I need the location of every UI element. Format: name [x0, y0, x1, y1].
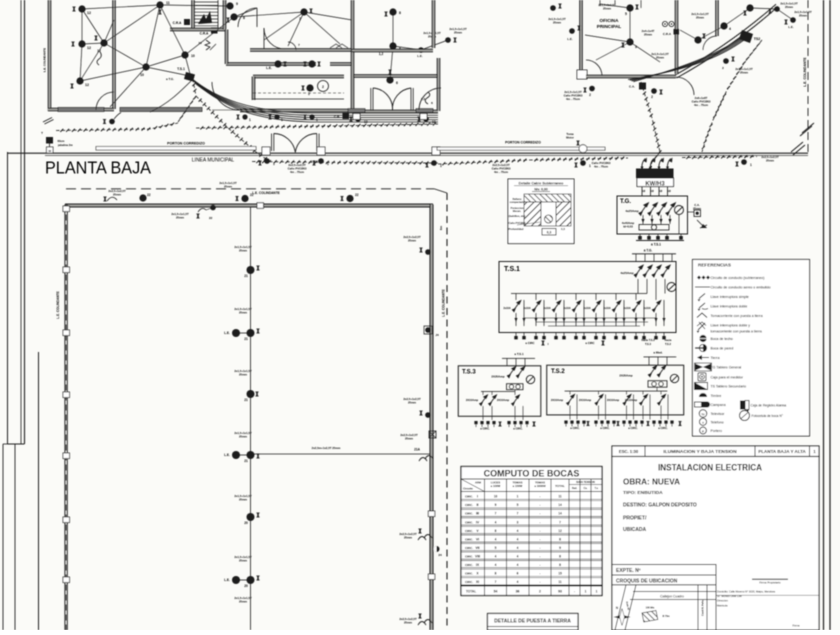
bundle drop arrows left — [150, 79, 193, 112]
right wall tomacorriente arcs mid — [418, 537, 426, 541]
svg-text:7: 7 — [495, 512, 497, 516]
svg-text:T.S.1: T.S.1 — [177, 67, 185, 71]
TS2 branch breakers — [569, 391, 571, 394]
svg-text:2X10Amp: 2X10Amp — [625, 398, 638, 402]
svg-text:7: 7 — [495, 580, 497, 584]
svg-text:20: 20 — [244, 521, 248, 525]
frame lower vertical — [14, 444, 16, 630]
svg-text:25mm: 25mm — [404, 620, 413, 624]
svg-text:CIRC.: CIRC. — [465, 537, 473, 541]
svg-text:25mm: 25mm — [656, 55, 665, 59]
svg-text:a T.G.: a T.G. — [166, 77, 174, 81]
svg-text:CIRC.: CIRC. — [465, 580, 473, 584]
svg-text:4: 4 — [729, 27, 731, 31]
TS1 main breakers — [634, 265, 643, 277]
svg-text:25mm: 25mm — [239, 558, 248, 562]
svg-text:compactado: compactado — [510, 201, 525, 204]
office dots — [626, 4, 633, 11]
svg-text:14: 14 — [558, 503, 562, 507]
svg-text:2X20Amp: 2X20Amp — [491, 375, 504, 379]
TS1 collector lines — [524, 317, 656, 319]
svg-text:4m→75cm: 4m→75cm — [566, 97, 581, 101]
T.S.3 box — [458, 366, 541, 417]
svg-text:PLANTA BAJA Y ALTA: PLANTA BAJA Y ALTA — [758, 449, 806, 454]
svg-text:1,2: 1,2 — [379, 52, 384, 56]
svg-text:2: 2 — [308, 92, 310, 96]
svg-text:Circuito de conducto (subterra: Circuito de conducto (subterraneo) — [711, 276, 765, 280]
gate receptacles — [264, 158, 270, 164]
svg-text:Rad.: Rad. — [572, 487, 578, 490]
svg-text:C.A.: C.A. — [629, 85, 635, 89]
svg-text:Ø 75m: Ø 75m — [662, 615, 669, 618]
legend sym caja registro alarma — [740, 401, 745, 410]
svg-text:Matricula: Matricula — [717, 603, 728, 607]
TS3 bus — [481, 391, 515, 393]
street receptacle x744 — [741, 159, 747, 165]
svg-text:Mecan.: Mecan. — [513, 210, 522, 213]
svg-text:KW/H3: KW/H3 — [645, 181, 665, 187]
stairs block — [192, 0, 194, 28]
svg-text:tomacorriente con puesta a tie: tomacorriente con puesta a tierra — [711, 330, 762, 334]
svg-text:Id=0,03: Id=0,03 — [623, 224, 633, 228]
svg-text:a CIRC.: a CIRC. — [658, 426, 668, 430]
svg-text:4: 4 — [517, 546, 519, 550]
svg-text:2x10A: 2x10A — [623, 307, 631, 310]
svg-text:5: 5 — [625, 12, 627, 16]
legend sym TG bowtie — [695, 364, 703, 371]
legend sym llave doble y toma — [698, 323, 705, 330]
right wall bottom cluster — [418, 622, 426, 626]
receptacles below right room 13 — [355, 116, 361, 122]
svg-text:15: 15 — [558, 572, 562, 576]
warehouse right wall — [430, 205, 432, 631]
svg-text:TS2: TS2 — [754, 37, 761, 41]
svg-text:Llave interruptora simple: Llave interruptora simple — [711, 295, 749, 299]
svg-text:Firma Propietario: Firma Propietario — [759, 581, 781, 585]
svg-text:2X10Amp: 2X10Amp — [551, 398, 564, 402]
right house room walls — [352, 75, 438, 77]
svg-text:12: 12 — [85, 83, 89, 87]
office top cut wires — [599, 0, 601, 6]
croquis street vertical — [697, 585, 699, 630]
office left wall — [580, 0, 582, 74]
center room outlet 7 — [300, 8, 307, 15]
corridor top wall right house — [352, 50, 433, 52]
dashed conduit TS1 to right gate — [196, 96, 266, 159]
svg-text:8: 8 — [399, 11, 401, 15]
wall x224 — [224, 0, 226, 30]
svg-text:25mm: 25mm — [404, 535, 413, 539]
svg-text:22: 22 — [355, 193, 359, 197]
svg-text:Circuito de conducto aereo o e: Circuito de conducto aereo o embutido — [711, 286, 771, 290]
street receptacle x583 — [580, 160, 586, 166]
office bottom wall — [586, 76, 676, 78]
svg-text:III: III — [476, 512, 479, 516]
svg-text:1Ø: 1Ø — [642, 190, 645, 193]
svg-text:LINEA MUNICIPAL: LINEA MUNICIPAL — [192, 158, 235, 164]
KW/H3 meter black box — [636, 169, 674, 179]
svg-text:TOTAL: TOTAL — [555, 484, 565, 488]
boca de pared right wall — [434, 546, 440, 552]
svg-text:CIRC.: CIRC. — [465, 529, 473, 533]
computo total row — [461, 585, 602, 587]
svg-text:0,3: 0,3 — [547, 231, 552, 235]
svg-text:93: 93 — [558, 590, 562, 594]
office partition x679 — [676, 0, 678, 74]
frame step — [8, 443, 25, 445]
svg-text:4: 4 — [495, 554, 497, 558]
svg-text:4: 4 — [517, 563, 519, 567]
title bar — [612, 446, 819, 457]
svg-text:25mm: 25mm — [553, 20, 562, 24]
svg-text:-: - — [539, 572, 540, 576]
legend sym portero — [700, 427, 707, 434]
svg-text:25mm: 25mm — [239, 599, 248, 603]
svg-text:25mm: 25mm — [239, 497, 248, 501]
expte box — [612, 565, 716, 576]
svg-text:1,3: 1,3 — [421, 97, 426, 101]
svg-text:1: 1 — [596, 590, 598, 594]
svg-text:5: 5 — [495, 546, 497, 550]
svg-text:TG Tablero General: TG Tablero General — [711, 366, 742, 370]
page frame left line 2 — [20, 0, 22, 444]
svg-text:8: 8 — [495, 529, 497, 533]
svg-text:L.E. COLINDANTE: L.E. COLINDANTE — [43, 48, 47, 72]
svg-text:2X20Amp: 2X20Amp — [619, 374, 632, 378]
svg-text:21: 21 — [244, 398, 248, 402]
svg-text:PLANTA BAJA: PLANTA BAJA — [45, 158, 151, 178]
meter incoming wires — [642, 159, 646, 170]
svg-text:a CIRC: a CIRC — [585, 341, 594, 345]
svg-text:Carril R. Peña: Carril R. Peña — [702, 599, 705, 615]
TS1 branch breakers — [515, 294, 517, 301]
svg-text:25mm: 25mm — [799, 13, 808, 17]
svg-text:-: - — [539, 512, 540, 516]
room2 outlet 10 — [142, 63, 149, 70]
svg-text:CIRC.: CIRC. — [465, 512, 473, 516]
svg-text:T.G.: T.G. — [620, 199, 631, 205]
svg-text:COMPUTO DE BOCAS: COMPUTO DE BOCAS — [484, 469, 580, 479]
svg-text:4: 4 — [495, 563, 497, 567]
svg-text:2: 2 — [322, 85, 324, 89]
svg-text:12: 12 — [87, 46, 91, 50]
computo rows — [461, 498, 602, 500]
svg-text:4: 4 — [517, 554, 519, 558]
svg-text:1Ø: 1Ø — [659, 190, 662, 193]
frame lower left lines — [2, 444, 4, 630]
svg-text:CIRC.: CIRC. — [465, 520, 473, 524]
svg-text:8: 8 — [559, 537, 561, 541]
svg-text:2x10A: 2x10A — [583, 307, 591, 310]
house wall x114 — [113, 0, 115, 109]
porton corredizo — [96, 147, 256, 150]
svg-text:PROPIET/: PROPIET/ — [623, 516, 647, 522]
svg-text:Direccion: Direccion — [717, 599, 728, 603]
svg-text:Portero: Portero — [711, 429, 723, 433]
window sill left room — [58, 108, 104, 112]
svg-text:4: 4 — [517, 580, 519, 584]
svg-text:Llave interruptora doble: Llave interruptora doble — [711, 305, 748, 309]
TS1 bottom terminals — [515, 333, 517, 338]
svg-text:CIRC.: CIRC. — [465, 503, 473, 507]
svg-text:4m→75cm: 4m→75cm — [694, 103, 709, 107]
TG drop arrows — [642, 215, 644, 224]
svg-text:Caja para el medidor: Caja para el medidor — [711, 375, 744, 379]
TG diff circle — [675, 206, 684, 215]
svg-text:-: - — [539, 563, 540, 567]
dashed conduit to street left — [56, 123, 178, 131]
stairs arrow blob — [198, 11, 212, 24]
office measurement circles — [662, 21, 667, 26]
extra wires entry — [160, 5, 230, 6]
office partition x717 — [716, 0, 718, 36]
TS3 circle — [526, 375, 534, 383]
office door arcs bottom — [586, 60, 602, 76]
svg-text:T.S.2: T.S.2 — [551, 369, 565, 375]
dot 10 near TS1 — [181, 51, 188, 58]
svg-text:-: - — [574, 590, 575, 594]
bottom wall receptacles — [242, 114, 247, 119]
svg-text:22: 22 — [147, 193, 151, 197]
svg-text:a CIRC.: a CIRC. — [570, 426, 580, 430]
center room wall x352 — [352, 0, 354, 50]
center room door arc — [263, 28, 265, 49]
svg-text:2x2,5m+1x2,5T 25mm: 2x2,5m+1x2,5T 25mm — [312, 446, 341, 450]
svg-text:L.E.: L.E. — [417, 54, 423, 58]
frame extra vertical — [38, 352, 40, 630]
top wall mark — [257, 203, 264, 209]
TG bottom terminals — [639, 234, 641, 240]
street conduit dashes — [196, 124, 438, 128]
cross connector to right wall — [251, 453, 431, 455]
svg-text:OFICINA: OFICINA — [600, 18, 620, 23]
X box fixture top right — [429, 431, 436, 438]
gate french arcs — [271, 134, 273, 152]
svg-text:7: 7 — [517, 512, 519, 516]
TS1 meter circle — [667, 283, 676, 292]
extra house wires — [82, 43, 104, 44]
detalle cable subterraneo box — [508, 179, 574, 244]
svg-text:-: - — [539, 529, 540, 533]
svg-text:Sr. Tecnico Obra Civil: Sr. Tecnico Obra Civil — [717, 594, 742, 598]
svg-text:54: 54 — [494, 590, 498, 594]
legend sym TS secundario — [695, 383, 708, 390]
TS3 main breakers — [507, 367, 515, 378]
TS2 terminals below — [564, 421, 567, 424]
svg-text:J4: J4 — [435, 333, 439, 337]
break marks left wall — [43, 118, 52, 123]
front wall right segment — [432, 147, 440, 155]
svg-text:25mm: 25mm — [785, 5, 794, 9]
TG ground symbol — [697, 220, 703, 226]
svg-text:L.E.: L.E. — [224, 331, 230, 335]
svg-text:C.R.A: C.R.A — [173, 21, 182, 25]
svg-text:INSTALACION ELECTRICA: INSTALACION ELECTRICA — [658, 463, 763, 473]
wires room2 — [104, 43, 146, 67]
svg-text:Caño PVCØ63: Caño PVCØ63 — [509, 222, 526, 225]
room2 outlet 12 — [100, 39, 107, 46]
svg-text:12: 12 — [87, 11, 91, 15]
svg-text:OBRA: NUEVA: OBRA: NUEVA — [623, 477, 680, 487]
svg-text:2x10A: 2x10A — [523, 307, 531, 310]
page frame left inner line — [7, 152, 9, 444]
legend sym toma tierra — [697, 313, 707, 318]
svg-text:REFERENCIAS: REFERENCIAS — [698, 263, 731, 268]
right wall column marks — [428, 511, 435, 517]
warehouse top wall — [65, 204, 433, 206]
TG breakers — [639, 203, 648, 215]
svg-text:4: 4 — [495, 537, 497, 541]
entry outlets 9 8 — [226, 2, 233, 9]
svg-text:I: I — [477, 495, 478, 499]
ceiling outlet 11 top — [156, 1, 163, 8]
svg-text:4x25Amp: 4x25Amp — [625, 209, 639, 213]
left wall column marks — [63, 206, 70, 212]
svg-text:9: 9 — [495, 503, 497, 507]
svg-text:25mm: 25mm — [239, 310, 248, 314]
svg-text:8: 8 — [559, 563, 561, 567]
firma line — [752, 578, 788, 580]
TS2 bus — [565, 390, 668, 392]
svg-text:PORTON CORREDIZO: PORTON CORREDIZO — [167, 142, 205, 146]
svg-text:jabalina 2m: jabalina 2m — [57, 143, 73, 147]
center room wires — [264, 12, 304, 40]
svg-text:0,5: 0,5 — [561, 227, 565, 231]
extra wires room2 — [110, 67, 146, 107]
LE outside office left — [569, 28, 575, 34]
svg-text:Domicilio: Calle Moreno N° 10: Domicilio: Calle Moreno N° 1020, Maipu, … — [717, 590, 776, 594]
svg-text:2: 2 — [589, 93, 591, 97]
svg-text:8: 8 — [495, 572, 497, 576]
svg-text:4m→75cm: 4m→75cm — [494, 170, 509, 174]
svg-text:a 150W: a 150W — [513, 484, 523, 488]
svg-text:PORTON CORREDIZO: PORTON CORREDIZO — [505, 141, 541, 145]
svg-text:25mm: 25mm — [224, 184, 233, 188]
svg-text:L.E.: L.E. — [266, 66, 272, 70]
curves to TS2 — [628, 40, 744, 80]
svg-text:10: 10 — [494, 495, 498, 499]
svg-text:6: 6 — [396, 81, 398, 85]
svg-text:2x10A: 2x10A — [643, 307, 651, 310]
TS2 diff rect — [648, 381, 667, 388]
svg-text:C.R.A: C.R.A — [663, 32, 672, 36]
office diagonal wall — [675, 4, 776, 75]
svg-text:10: 10 — [191, 54, 195, 58]
svg-text:XI: XI — [476, 580, 479, 584]
right wall receptacles — [425, 249, 431, 255]
svg-text:1Ø: 1Ø — [651, 190, 654, 193]
detalle hatch ground — [524, 194, 571, 202]
svg-text:Llave interruptora doble y: Llave interruptora doble y — [711, 324, 751, 328]
svg-text:L.E. COLINDANTE: L.E. COLINDANTE — [442, 289, 446, 317]
svg-text:T.S.3: T.S.3 — [462, 370, 476, 376]
T.S.2 box — [547, 365, 684, 415]
svg-text:PRINCIPAL: PRINCIPAL — [597, 24, 622, 29]
svg-text:4x25Amp: 4x25Amp — [620, 271, 634, 275]
house left outer wall — [49, 0, 51, 111]
posts over bundle — [353, 114, 360, 120]
legend sym televisor — [699, 410, 707, 418]
legend sym llave doble — [699, 303, 705, 308]
svg-text:9: 9 — [559, 546, 561, 550]
svg-text:a 100W: a 100W — [491, 484, 501, 488]
svg-text:36: 36 — [516, 590, 520, 594]
svg-text:(ladrillon, etc): (ladrillon, etc) — [509, 215, 526, 218]
svg-text:Televisor: Televisor — [711, 412, 726, 416]
colindante dashed x447 — [446, 193, 448, 630]
svg-text:25mm: 25mm — [239, 248, 248, 252]
garage dashed canopy — [253, 92, 344, 94]
svg-text:ILUMINACION Y BAJA TENSION: ILUMINACION Y BAJA TENSION — [663, 449, 737, 455]
svg-text:Tomacorriente con puesta a tie: Tomacorriente con puesta a tierra — [711, 314, 763, 318]
svg-text:Ca.: Ca. — [584, 487, 588, 490]
meter terminals — [641, 187, 643, 197]
corridor wall fixtures L.E. — [274, 60, 281, 67]
svg-text:6m: 6m — [439, 226, 443, 231]
svg-text:12: 12 — [558, 529, 562, 533]
svg-text:1Ø: 1Ø — [668, 190, 671, 193]
svg-text:Profundidad: Profundidad — [509, 228, 524, 231]
croquis box — [612, 575, 716, 630]
svg-text:10: 10 — [140, 73, 144, 77]
legend sym boca pared — [703, 345, 707, 352]
svg-text:2x10A: 2x10A — [603, 307, 611, 310]
svg-text:CIRC.: CIRC. — [465, 554, 473, 558]
svg-text:ARM: ARM — [475, 481, 481, 485]
svg-text:21: 21 — [244, 337, 248, 341]
svg-text:-: - — [539, 580, 540, 584]
svg-text:ESC. 1:30: ESC. 1:30 — [619, 449, 639, 454]
page frame left line — [24, 0, 26, 444]
croquis diagonal street — [615, 585, 626, 630]
office entry door arc — [676, 77, 694, 95]
svg-text:a T.S.1: a T.S.1 — [651, 243, 661, 247]
svg-text:L.E.: L.E. — [224, 453, 230, 457]
legend sym timbre — [699, 393, 707, 397]
window sill room2 — [120, 108, 202, 112]
svg-text:25mm: 25mm — [405, 436, 414, 440]
legend sym boca techo — [699, 335, 706, 342]
dashed conduit office to meter — [641, 82, 660, 152]
svg-text:5: 5 — [517, 503, 519, 507]
svg-text:20: 20 — [244, 584, 248, 588]
svg-text:T.v.: T.v. — [595, 487, 599, 490]
office bottom-left corner post — [577, 70, 587, 79]
zigzag below stairs — [205, 40, 210, 50]
svg-text:2x10A: 2x10A — [543, 307, 551, 310]
svg-text:2: 2 — [651, 95, 653, 99]
detalle puesta a tierra box — [488, 614, 579, 631]
svg-text:a CIRC.: a CIRC. — [600, 426, 610, 430]
legend sym subterraneo — [697, 276, 701, 280]
svg-text:25mm: 25mm — [239, 434, 248, 438]
french doors bottom right room — [370, 88, 372, 110]
right rooms dots 8 8 6 — [389, 8, 396, 15]
right room zigzag — [425, 92, 430, 104]
svg-text:hacia: hacia — [665, 338, 672, 342]
svg-text:25mm: 25mm — [696, 15, 705, 19]
garage circle symbol — [318, 81, 329, 92]
svg-text:Detalle Cable Subterraneo: Detalle Cable Subterraneo — [519, 182, 565, 186]
title block outer — [612, 457, 819, 631]
svg-text:L.E. COLINDANTE: L.E. COLINDANTE — [252, 191, 280, 195]
street receptacle x434 — [431, 160, 437, 166]
svg-text:TV: TV — [701, 413, 705, 417]
break marks — [800, 126, 812, 136]
svg-text:Telefono: Telefono — [711, 420, 724, 424]
left room door arc — [96, 92, 114, 110]
corridor wall y63.5 — [226, 63, 316, 65]
